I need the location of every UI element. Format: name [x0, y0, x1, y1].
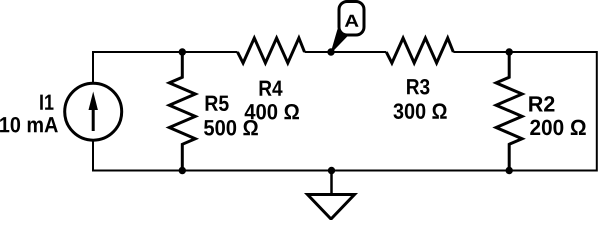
junction dot ground: [328, 167, 335, 174]
label 400: [245, 104, 299, 120]
current source I1: [65, 83, 122, 140]
resistor R3: [386, 38, 453, 63]
label R3: [407, 79, 429, 95]
node A box: [339, 2, 364, 36]
junction dot R2 bottom: [506, 167, 513, 174]
resistor R2: [496, 52, 522, 171]
ground symbol: [308, 195, 355, 220]
wire top rail middle segment: [305, 51, 387, 53]
resistor R5: [169, 52, 195, 171]
label 300: [393, 103, 446, 119]
label R2: [529, 96, 554, 111]
resistor R4: [238, 38, 305, 63]
junction dot R2 top: [506, 48, 513, 55]
junction dot R5 top: [179, 48, 186, 55]
ground stub: [330, 171, 333, 195]
label 500: [204, 120, 258, 136]
wire right vertical: [596, 51, 598, 172]
label 10mA: [0, 117, 58, 133]
node A pointer: [331, 30, 348, 53]
junction dot R5 bottom: [179, 167, 186, 174]
node A junction dot top: [327, 48, 334, 55]
label R4: [260, 81, 283, 96]
label I1: [40, 95, 53, 110]
wire left vertical bottom stub: [92, 141, 94, 172]
label R5: [206, 96, 229, 111]
label A: [345, 15, 359, 27]
wire top rail left segment: [93, 51, 238, 53]
wire bottom rail: [93, 170, 597, 172]
wire left vertical top stub: [92, 51, 94, 83]
label 200: [530, 120, 586, 136]
wire top rail right segment: [453, 51, 597, 53]
